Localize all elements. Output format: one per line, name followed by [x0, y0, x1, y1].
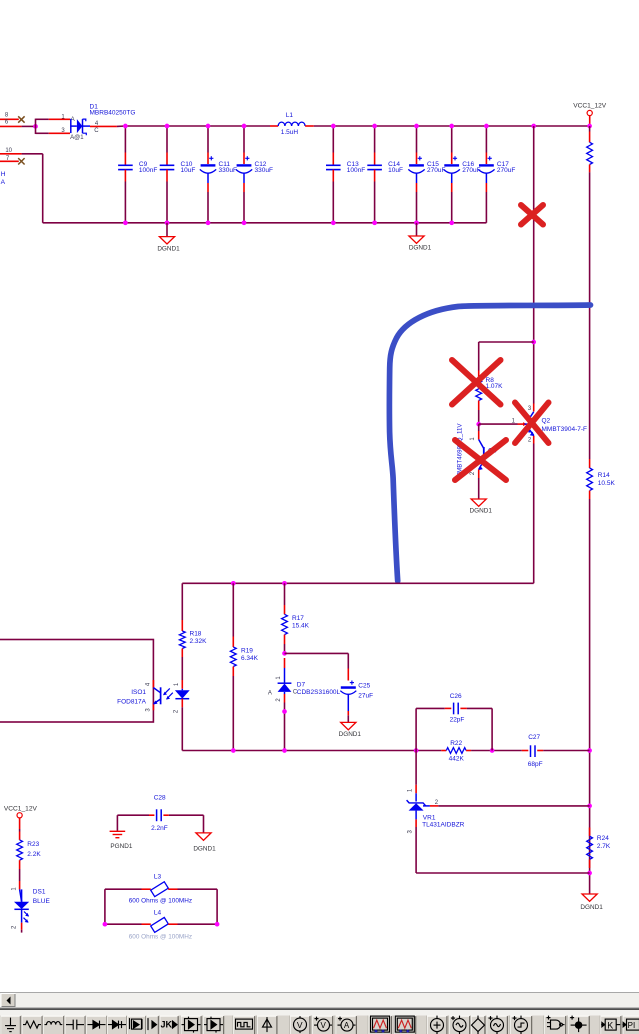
- svg-text:VCC1_12V: VCC1_12V: [4, 805, 38, 812]
- svg-text:10.5K: 10.5K: [598, 480, 616, 487]
- svg-text:R22: R22: [450, 740, 462, 747]
- svg-text:DGND1: DGND1: [409, 245, 432, 252]
- svg-text:Q2: Q2: [542, 417, 551, 424]
- svg-text:R18: R18: [190, 630, 202, 637]
- svg-text:PI: PI: [628, 1021, 636, 1030]
- svg-text:2.2nF: 2.2nF: [151, 825, 168, 832]
- svg-text:A: A: [1, 179, 6, 186]
- svg-text:CDB2S31600L: CDB2S31600L: [297, 689, 341, 696]
- svg-text:270uF: 270uF: [427, 167, 445, 174]
- svg-text:2.7K: 2.7K: [597, 843, 611, 850]
- svg-text:100nF: 100nF: [347, 167, 365, 174]
- svg-text:L3: L3: [154, 874, 162, 881]
- svg-text:C27: C27: [528, 734, 540, 741]
- svg-text:442K: 442K: [449, 756, 465, 763]
- svg-text:DGND1: DGND1: [470, 508, 493, 515]
- svg-text:C: C: [94, 128, 99, 134]
- svg-text:C26: C26: [450, 693, 462, 700]
- svg-text:600 Ohms @ 100MHz: 600 Ohms @ 100MHz: [129, 897, 192, 904]
- svg-text:JK: JK: [161, 1020, 173, 1030]
- svg-text:330uF: 330uF: [219, 167, 237, 174]
- svg-text:DS1: DS1: [33, 889, 46, 896]
- svg-text:BLUE: BLUE: [33, 898, 51, 905]
- svg-text:2.32K: 2.32K: [190, 638, 208, 645]
- svg-text:6.34K: 6.34K: [241, 655, 259, 662]
- svg-text:10uF: 10uF: [181, 167, 196, 174]
- svg-text:C28: C28: [154, 795, 166, 802]
- svg-text:R14: R14: [598, 472, 610, 479]
- svg-text:68pF: 68pF: [528, 761, 543, 768]
- svg-text:15.4K: 15.4K: [292, 622, 310, 629]
- svg-text:100nF: 100nF: [139, 167, 157, 174]
- svg-text:270uF: 270uF: [497, 167, 515, 174]
- svg-text:R19: R19: [241, 647, 253, 654]
- svg-text:L4: L4: [154, 910, 162, 917]
- svg-text:600 Ohms @ 100MHz: 600 Ohms @ 100MHz: [129, 934, 192, 941]
- svg-text:A: A: [268, 690, 272, 696]
- svg-text:C25: C25: [358, 683, 370, 690]
- svg-text:A: A: [344, 1021, 350, 1030]
- svg-text:FOD817A: FOD817A: [117, 698, 147, 705]
- svg-text:MBRB40250TG: MBRB40250TG: [90, 109, 136, 116]
- svg-text:H: H: [1, 171, 6, 178]
- svg-text:R23: R23: [27, 841, 39, 848]
- svg-text:R17: R17: [292, 615, 304, 622]
- svg-text:1.5uH: 1.5uH: [281, 129, 299, 136]
- svg-text:27uF: 27uF: [358, 693, 373, 700]
- svg-text:DGND1: DGND1: [193, 846, 216, 853]
- svg-text:D7: D7: [297, 681, 306, 688]
- svg-text:2.2K: 2.2K: [27, 851, 41, 858]
- svg-text:A@1: A@1: [70, 135, 84, 141]
- svg-text:10uF: 10uF: [388, 167, 403, 174]
- svg-text:ISO1: ISO1: [131, 689, 146, 696]
- svg-text:VCC1_12V: VCC1_12V: [573, 102, 607, 109]
- svg-text:V: V: [297, 1020, 303, 1030]
- svg-text:TL431AIDBZR: TL431AIDBZR: [422, 822, 465, 829]
- svg-text:PGND1: PGND1: [110, 843, 132, 850]
- svg-text:K: K: [607, 1020, 613, 1030]
- svg-text:V: V: [321, 1021, 327, 1030]
- svg-text:270uF: 270uF: [462, 167, 480, 174]
- svg-text:R24: R24: [597, 835, 609, 842]
- svg-text:MMBT4698TQ_11V: MMBT4698TQ_11V: [457, 423, 464, 478]
- svg-text:DGND1: DGND1: [339, 731, 362, 738]
- svg-text:L1: L1: [286, 112, 294, 119]
- svg-text:330uF: 330uF: [255, 167, 273, 174]
- svg-text:VR1: VR1: [423, 814, 436, 821]
- svg-text:22pF: 22pF: [450, 717, 465, 724]
- svg-text:DGND1: DGND1: [157, 245, 180, 252]
- svg-text:DGND1: DGND1: [580, 904, 603, 911]
- svg-text:MMBT3904-7-F: MMBT3904-7-F: [542, 426, 588, 433]
